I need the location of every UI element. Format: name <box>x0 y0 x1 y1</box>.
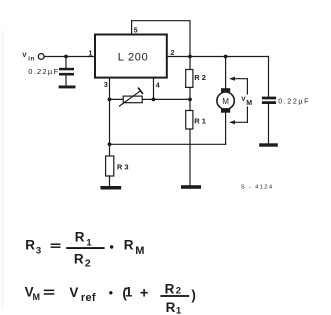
svg-text:M: M <box>135 245 144 257</box>
node pin4 row junction <box>152 98 156 102</box>
svg-text:4: 4 <box>156 82 160 89</box>
wire input to pin 1 <box>44 56 95 58</box>
VM bottom arrowhead <box>229 120 235 124</box>
ground R3 <box>100 186 121 190</box>
svg-text:V: V <box>69 285 78 300</box>
node input junction <box>64 55 68 59</box>
VM bracket vertical wire <box>246 79 248 123</box>
input terminal circle <box>38 54 44 60</box>
wire C1 to ground <box>65 76 67 86</box>
svg-text:ref: ref <box>81 292 96 304</box>
svg-text:+: + <box>140 286 148 302</box>
potentiometer arrow <box>120 91 141 106</box>
motor brush bottom <box>221 108 230 113</box>
potentiometer arrowhead <box>139 88 143 93</box>
svg-text:5: 5 <box>134 28 138 35</box>
node Vin label <box>22 52 35 62</box>
svg-text:R 2: R 2 <box>194 73 206 82</box>
svg-text:M: M <box>246 100 252 107</box>
svg-text:R: R <box>124 238 134 253</box>
wire R1 to ground <box>189 129 191 185</box>
motor M circle <box>217 92 234 109</box>
formula R3 equation <box>25 230 144 270</box>
node pin3 row junction <box>108 98 112 102</box>
wire rail to motor <box>225 57 227 89</box>
IC U1 L200 regulator box <box>95 35 167 78</box>
svg-text:V: V <box>22 52 27 59</box>
svg-text:L 200: L 200 <box>118 51 149 63</box>
svg-text:R: R <box>166 300 176 315</box>
svg-text:M: M <box>222 97 229 106</box>
svg-text:M: M <box>33 292 41 302</box>
wire R2 to node <box>189 87 191 99</box>
svg-text:R 1: R 1 <box>194 116 206 125</box>
ground R1 <box>181 185 201 189</box>
svg-text:3: 3 <box>104 82 108 89</box>
svg-text:0.22µF: 0.22µF <box>28 67 59 76</box>
capacitor C1 0.22uF <box>59 68 74 76</box>
svg-text:R: R <box>75 230 85 245</box>
wire rail corner to C2 <box>268 57 270 97</box>
potentiometer body <box>123 96 142 103</box>
pin 3 wire <box>109 78 111 100</box>
wire feedback row <box>110 98 191 100</box>
pin 5 wire <box>131 21 133 35</box>
motor brush top <box>221 88 230 93</box>
wire node to R1 <box>189 99 191 110</box>
svg-text:in: in <box>28 56 35 62</box>
VM label backing <box>243 95 253 107</box>
svg-text:2: 2 <box>176 286 181 297</box>
resistor R3 <box>106 156 114 176</box>
wire bottom row <box>110 143 226 145</box>
formula VM equation <box>25 281 196 315</box>
wire C2 to ground <box>268 104 270 143</box>
svg-text:2: 2 <box>85 258 91 270</box>
svg-text:1: 1 <box>176 305 182 315</box>
wire pin5 top feedback <box>132 21 190 57</box>
svg-text:2: 2 <box>171 50 175 57</box>
node VM label <box>241 96 252 107</box>
svg-text:1: 1 <box>125 285 133 300</box>
svg-text:R: R <box>165 281 175 296</box>
svg-text:R: R <box>25 238 35 253</box>
wire rail to R2 <box>189 57 191 70</box>
VM top arrowhead <box>229 77 235 81</box>
svg-text:R: R <box>74 252 84 267</box>
ground input <box>59 86 76 89</box>
svg-text:0.22µF: 0.22µF <box>278 97 310 106</box>
svg-text:3: 3 <box>36 245 41 256</box>
VM bracket top arrow wire <box>231 78 247 80</box>
node bottom row junction <box>108 142 112 146</box>
pin 4 wire <box>153 78 155 100</box>
wire motor to bottom row <box>225 113 227 145</box>
resistor R1 <box>186 111 193 130</box>
wire output rail <box>167 56 269 58</box>
svg-text:S - 4124: S - 4124 <box>241 185 274 191</box>
node R2 R1 junction <box>188 98 192 102</box>
node rail R2 <box>188 55 192 59</box>
capacitor C2 0.22uF <box>262 97 276 104</box>
ground C2 <box>259 143 278 146</box>
wire junction to C1 <box>65 57 67 68</box>
wire pin3 column down <box>109 99 111 156</box>
svg-text:1: 1 <box>89 50 93 57</box>
wire R3 to ground <box>109 176 111 186</box>
svg-text:R 3: R 3 <box>117 162 129 171</box>
resistor R2 <box>186 70 193 88</box>
svg-text:1: 1 <box>86 237 92 248</box>
VM bracket bottom arrow wire <box>231 121 247 123</box>
svg-text:): ) <box>191 288 196 303</box>
node rail motor <box>224 55 228 59</box>
